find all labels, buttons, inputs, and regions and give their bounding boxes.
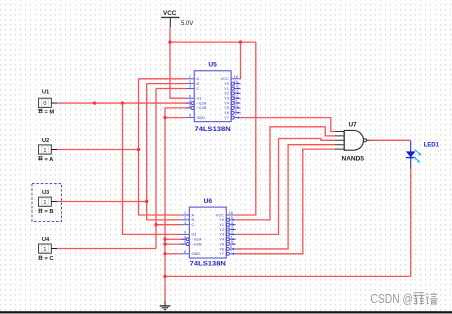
svg-text:LED1: LED1 <box>424 142 440 148</box>
wire U6.Y6 to NAND input 4 <box>236 145 335 249</box>
pin 8 GND <box>186 113 205 120</box>
pin 8 GND <box>181 249 200 256</box>
wire U5.GND branch <box>165 117 186 119</box>
pin 11 Y4 <box>219 234 235 241</box>
wire U6.GND branch <box>165 253 181 255</box>
switch U2 key=A <box>38 138 57 163</box>
wire U5.A horizontal <box>139 78 186 80</box>
svg-text:~G2B: ~G2B <box>192 241 202 246</box>
pin 9 Y6 <box>219 244 235 251</box>
node VCC stem junction <box>168 40 171 43</box>
pin 16 VCC <box>221 74 241 81</box>
wire ground stem <box>164 276 166 300</box>
pin 7 Y7 <box>224 113 240 120</box>
svg-text:1: 1 <box>43 247 46 253</box>
svg-text:~G2B: ~G2B <box>196 105 206 110</box>
svg-text:3: 3 <box>184 220 186 225</box>
svg-text:0: 0 <box>43 101 46 107</box>
wire U4 to C net <box>57 248 156 250</box>
pin 12 Y3 <box>219 230 235 237</box>
svg-text:1: 1 <box>43 148 46 154</box>
svg-text:Y7: Y7 <box>224 115 229 120</box>
pin 13 Y2 <box>224 88 240 95</box>
ground <box>160 301 171 310</box>
pin 9 Y6 <box>224 108 240 115</box>
wire C net branch to U6.C <box>156 224 181 226</box>
wire VCC stem down to U5.G1 <box>170 27 186 98</box>
svg-text:1: 1 <box>43 200 46 206</box>
svg-text:5: 5 <box>189 103 191 108</box>
power VCC 5.0V <box>161 10 193 27</box>
switch U1 key=M <box>38 90 57 116</box>
node U6.~G2B junction <box>163 242 166 245</box>
wire VCC branch to U5 pin16 <box>240 42 242 79</box>
pin 5 ~G2B <box>186 103 207 110</box>
svg-text:7: 7 <box>235 113 237 118</box>
wire NAND output to LED1 <box>370 139 411 141</box>
pin 3 C <box>181 220 195 227</box>
wire ground rail <box>165 275 411 277</box>
svg-text:74LS138N: 74LS138N <box>195 127 231 133</box>
pin 2 B <box>181 215 195 222</box>
pin 1 A <box>186 74 200 81</box>
svg-text:= M: = M <box>44 109 54 115</box>
wire M net down to U6.G1 <box>123 103 181 234</box>
svg-text:U5: U5 <box>208 62 217 69</box>
svg-text:Y7: Y7 <box>219 251 224 256</box>
wire U6.Y0 to NAND input 2 <box>236 127 335 220</box>
pin 15 Y0 <box>224 79 240 86</box>
svg-text:C: C <box>196 86 199 91</box>
svg-text:U4: U4 <box>42 237 50 243</box>
svg-text:C: C <box>192 222 195 227</box>
svg-text:U6: U6 <box>204 198 213 205</box>
node A net junction <box>137 148 140 151</box>
pin 13 Y2 <box>219 225 235 232</box>
svg-text:GND: GND <box>196 115 205 120</box>
wire U6.~G2A branch <box>165 238 186 240</box>
svg-text:5.0V: 5.0V <box>181 21 193 27</box>
pin 6 G1 <box>186 93 202 100</box>
node U6.~G2A junction <box>163 238 166 241</box>
wire VCC branch to U6 pin16 <box>236 42 256 215</box>
svg-text:= C: = C <box>44 256 54 262</box>
LED LED1 <box>406 141 440 169</box>
pin 16 VCC <box>216 210 236 217</box>
pin 6 G1 <box>181 230 197 237</box>
svg-text:GND: GND <box>192 251 201 256</box>
pin 7 Y7 <box>219 249 235 256</box>
pin 5 ~G2B <box>181 239 202 246</box>
pin 1 A <box>181 210 195 217</box>
wire U6.Y7 to NAND input 5 <box>236 149 335 254</box>
wire U3 to B net <box>57 201 147 203</box>
svg-text:7: 7 <box>230 249 232 254</box>
node VCC U5 branch <box>239 40 242 43</box>
wire C net vertical <box>155 89 157 249</box>
wire U5.C horizontal <box>156 88 186 90</box>
svg-text:CSDN @: CSDN @ <box>371 291 414 306</box>
node ground rail junction <box>163 275 166 278</box>
decoder U5 74LS138N <box>186 62 241 133</box>
wire A net vertical to U6.A <box>139 79 181 215</box>
pin 14 Y1 <box>224 84 240 91</box>
node B net junction <box>145 200 148 203</box>
svg-text:NAND5: NAND5 <box>342 155 365 162</box>
pin 15 Y0 <box>219 215 235 222</box>
wire ground net vertical <box>164 108 166 277</box>
svg-text:U7: U7 <box>349 122 358 129</box>
svg-text:3: 3 <box>189 84 191 89</box>
wire U6.~G2B branch <box>165 243 186 245</box>
wire U5.B horizontal <box>147 83 186 85</box>
svg-text:= A: = A <box>44 157 54 163</box>
node U6.GND junction <box>163 252 166 255</box>
watermark CSDN <box>371 291 438 306</box>
node U5.GND junction <box>163 116 166 119</box>
wire U5.Y7 to NAND input 1 <box>241 118 335 132</box>
pin 11 Y4 <box>224 98 240 105</box>
pin 4 ~G2A <box>181 234 202 241</box>
decoder U6 74LS138N <box>181 198 236 268</box>
pin 3 C <box>186 84 200 91</box>
svg-text:8: 8 <box>189 113 191 118</box>
wire LED1 cathode down <box>410 169 412 277</box>
svg-text:U1: U1 <box>42 90 50 96</box>
node C net junction <box>154 223 157 226</box>
svg-text:U3: U3 <box>42 190 50 196</box>
svg-text:74LS138N: 74LS138N <box>190 262 226 268</box>
wire U5.~G2B to ground net <box>165 107 191 109</box>
nand gate U7 NAND5 <box>335 122 370 163</box>
svg-text:VCC: VCC <box>163 10 177 17</box>
wire U2 to A net <box>57 149 139 151</box>
wire U6.Y3 to NAND input 3 <box>236 139 335 235</box>
pin 12 Y3 <box>224 93 240 100</box>
svg-text:= B: = B <box>44 209 53 215</box>
bottom window border bar <box>0 311 452 313</box>
pin 4 ~G2A <box>186 98 207 105</box>
pin 10 Y5 <box>219 239 235 246</box>
svg-text:8: 8 <box>184 249 186 254</box>
svg-text:5: 5 <box>184 239 186 244</box>
node M wire junction 1 <box>93 101 96 104</box>
wire B net vertical to U6.B <box>147 84 181 220</box>
pin 14 Y1 <box>219 220 235 227</box>
wire VCC rail <box>170 41 256 43</box>
wire U1 to U5 ~G2A <box>57 102 191 104</box>
switch U3 key=B (selected, dashed box) <box>32 184 62 222</box>
switch U4 key=C <box>38 237 57 262</box>
pin 10 Y5 <box>224 103 240 110</box>
node M wire junction 2 <box>121 101 124 104</box>
svg-text:U2: U2 <box>42 138 49 144</box>
pin 2 B <box>186 79 200 86</box>
